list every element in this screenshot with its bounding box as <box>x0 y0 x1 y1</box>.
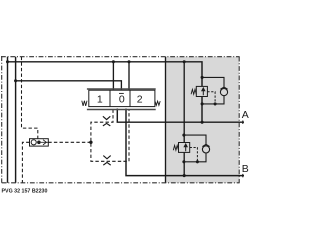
section boundary left <box>1 56 3 183</box>
relief valve A body <box>196 86 207 96</box>
check valve branch A <box>202 77 224 104</box>
wire port B line <box>126 109 244 176</box>
check valve A seat <box>220 87 227 89</box>
wire spool feed right <box>128 62 130 90</box>
junction dot B line <box>183 174 186 177</box>
section boundary bottom <box>2 182 240 184</box>
relief valve B body <box>179 143 190 153</box>
spring right of spool <box>155 101 160 105</box>
wire B-relief riser <box>183 62 185 176</box>
label position 1 <box>97 93 103 105</box>
svg-text:2: 2 <box>137 93 143 105</box>
spool blocked center port T-mark <box>119 92 124 94</box>
gray section panel <box>166 57 239 183</box>
wire LS dashed shuttle left to bottom border <box>22 142 29 183</box>
svg-text:PVG 32 157 B2230: PVG 32 157 B2230 <box>2 188 48 194</box>
wire top rail 1 to A-relief riser <box>8 62 203 122</box>
spring left of spool <box>82 101 87 106</box>
wire top rail 2 to spool center port <box>16 81 122 93</box>
junction dot B riser top <box>183 60 186 63</box>
relief valve A pilot dashed <box>207 92 215 104</box>
junction dot T rail <box>14 79 17 82</box>
port A end tick <box>242 121 244 124</box>
relief valve A arrow <box>201 87 206 95</box>
valve spool position boxes <box>89 90 155 106</box>
check valve B ball <box>202 146 209 153</box>
wire LS dashed from top border to shuttle top <box>22 57 38 139</box>
valve spool housing bottom bar <box>87 109 156 111</box>
plug X1 <box>103 116 110 126</box>
relief valve B spring <box>173 145 178 150</box>
junction dot B check bottom <box>182 160 185 163</box>
wire P rail vertical <box>7 57 9 183</box>
plug X2 <box>103 156 110 166</box>
label part number <box>2 188 48 194</box>
junction dot spool feed right <box>127 60 130 63</box>
port B end tick <box>242 174 244 177</box>
section boundary right <box>238 57 240 183</box>
svg-text:0: 0 <box>119 94 125 106</box>
junction dot B pilot <box>196 160 199 163</box>
valve spool housing top bar <box>87 88 156 90</box>
junction dot A check top <box>201 76 204 79</box>
wire LS pilot loop dashed <box>91 110 129 162</box>
junction dot spool feed left <box>112 60 115 63</box>
svg-text:1: 1 <box>97 93 103 105</box>
junction dot A pilot <box>214 102 217 105</box>
check valve A ball <box>220 89 227 96</box>
junction dot A check bottom <box>201 102 204 105</box>
label port B <box>242 163 249 175</box>
junction dot B check top <box>182 134 185 137</box>
svg-text:B: B <box>242 163 249 175</box>
wire T rail vertical <box>15 57 17 183</box>
check valve B seat <box>202 144 209 146</box>
relief valve A spring <box>191 89 196 94</box>
junction dot shuttle LS <box>89 141 92 144</box>
junction dot P rail <box>6 60 9 63</box>
label position 2 <box>137 93 143 105</box>
relief valve B pilot dashed <box>190 148 198 162</box>
shuttle valve LS <box>30 139 49 146</box>
wire LS dashed shuttle right to loop junction <box>48 141 91 143</box>
module boundary line <box>165 57 167 183</box>
junction dot A line <box>201 121 204 124</box>
svg-text:A: A <box>242 109 249 121</box>
label position 0 <box>119 94 125 106</box>
section boundary top <box>1 56 240 58</box>
relief valve B arrow <box>183 143 188 151</box>
check valve branch B <box>184 135 206 162</box>
label port A <box>242 109 249 121</box>
wire spool feed left <box>112 62 114 90</box>
wire port A line <box>117 109 244 123</box>
